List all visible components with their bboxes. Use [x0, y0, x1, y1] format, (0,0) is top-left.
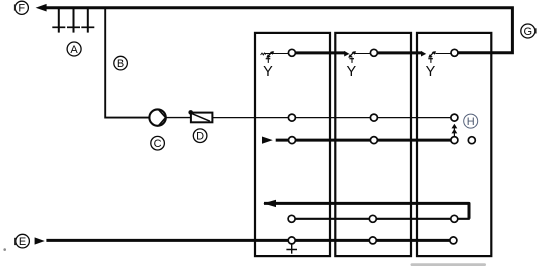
zone box 3: [417, 33, 491, 256]
node D: [193, 129, 207, 143]
wire: return loop row C: [264, 203, 469, 218]
sensor circle row B box2: [370, 137, 377, 144]
arrow into valve 3: [421, 51, 426, 57]
sensor circle row E box1: [288, 237, 295, 244]
wire: top row thin line box3: [436, 53, 451, 55]
wire: supply row B: [276, 139, 451, 142]
wire: pump outlet to valve D: [166, 117, 191, 119]
node A: [67, 42, 81, 56]
svg-text:Y: Y: [426, 64, 436, 80]
sensor circle mid row box1: [288, 114, 295, 121]
svg-text:D: D: [196, 131, 204, 143]
sensor circle row D box1: [288, 215, 295, 222]
sensor circle mid row box3: [451, 114, 458, 121]
branch tick 3 (A): [81, 9, 94, 33]
wire: supply pipe B: [105, 9, 149, 118]
pump C: [149, 109, 165, 125]
svg-text:H: H: [467, 116, 475, 128]
svg-text:A: A: [70, 44, 78, 56]
wire: supply main E: [46, 239, 450, 242]
sensor circle row E box2: [369, 237, 376, 244]
sensor circle row B box1: [289, 137, 296, 144]
node C: [151, 136, 165, 150]
sensor circle row E box3: [450, 237, 457, 244]
svg-text:F: F: [18, 3, 25, 15]
arrow to F: [36, 4, 47, 12]
svg-text:Y: Y: [346, 64, 356, 80]
branch tick 2 (A): [67, 9, 80, 33]
node G: [521, 24, 536, 38]
wire: top return main with riser G: [46, 8, 512, 53]
svg-text:C: C: [154, 138, 162, 150]
stray dot: [3, 248, 6, 251]
arrow into valve 2: [344, 51, 349, 57]
svg-text:E: E: [19, 236, 26, 248]
arrow return row C: [263, 200, 276, 207]
svg-text:Y: Y: [263, 64, 273, 80]
wire: top row thin line box1: [264, 53, 289, 55]
sensor circle top row box2: [370, 49, 377, 56]
sensor circle top row box3: [451, 49, 458, 56]
valve D: [188, 110, 212, 122]
sensor circle row D box3: [451, 215, 458, 222]
sensor circle mid row box2: [370, 114, 377, 121]
svg-text:B: B: [117, 58, 124, 70]
wire: top row thick segment box2 to valve3: [378, 51, 421, 54]
node E: [15, 234, 29, 248]
wire: top row thin line box2: [354, 53, 370, 55]
wire: top row thick segment box1 to valve2: [296, 51, 345, 54]
sensor circle row D box2: [369, 215, 376, 222]
node H: [464, 114, 478, 128]
spray valve Y2: [346, 51, 356, 80]
arrow into supply row B: [262, 137, 273, 144]
sensor circle H: [468, 137, 475, 144]
double arrow up: [452, 124, 458, 137]
node B: [114, 56, 128, 70]
sensor circle row B box3: [451, 137, 458, 144]
svg-text:G: G: [524, 26, 533, 38]
drain symbol under row E: [286, 244, 297, 254]
shadow mark bottom right: [411, 263, 487, 266]
wire: sensing line to boxes: [212, 117, 451, 119]
branch tick 1 (A): [52, 9, 65, 33]
node F: [15, 1, 28, 14]
sensor circle top row box1: [288, 49, 295, 56]
wire: return loop row D: [292, 218, 470, 220]
zone box 2: [335, 33, 411, 256]
spray valve Y3: [426, 51, 436, 80]
spray valve Y1: [261, 51, 275, 80]
zone box 1: [255, 33, 330, 256]
arrow from E: [35, 237, 45, 244]
